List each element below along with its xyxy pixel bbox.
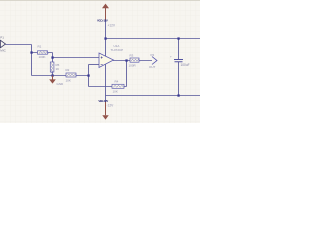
wire VEE stub (105, 96, 107, 103)
wire op-amp bottom input (89, 64, 100, 66)
wire bottom rail (106, 95, 201, 97)
wire R1 row (32, 52, 53, 54)
junction node cap bottom (177, 94, 179, 96)
wire top rail (106, 38, 201, 40)
svg-text:R4: R4 (115, 79, 119, 83)
wire R1 corner down (52, 53, 54, 58)
wire op-amp output row (113, 60, 152, 62)
wire to op-amp top input (53, 57, 100, 59)
svg-text:R1: R1 (38, 45, 42, 49)
svg-text:R2: R2 (66, 68, 70, 72)
wire left vertical (31, 45, 33, 76)
resistor R3 (output) (130, 58, 139, 62)
resistor R5 (vertical) (50, 62, 54, 72)
port P2 (output) (149, 53, 157, 69)
wire op-amp V- pin (105, 65, 107, 96)
junction node output (125, 59, 127, 61)
wire feedback vertical right (126, 61, 128, 87)
junction node +in branch (51, 56, 53, 58)
svg-text:GND: GND (57, 82, 65, 86)
svg-text:10K: 10K (113, 90, 118, 94)
power port GND (arrow down, mid-left) (49, 76, 64, 87)
svg-text:100uF: 100uF (181, 63, 190, 67)
wire feedback bottom row (89, 86, 127, 88)
svg-text:R3: R3 (130, 54, 134, 58)
junction node cap top (177, 37, 179, 39)
resistor hatch marks (39, 52, 140, 88)
svg-text:P1: P1 (0, 35, 4, 39)
svg-text:OUT: OUT (149, 65, 156, 69)
svg-text:+: + (170, 55, 172, 59)
junction node input/R1 (30, 51, 32, 53)
junction node vcc rail (104, 37, 106, 39)
resistor R4 (feedback) (112, 84, 124, 88)
junction node gnd rail left (51, 74, 53, 76)
resistor R1 (38, 51, 48, 54)
svg-text:+12V: +12V (108, 23, 116, 27)
svg-text:100K: 100K (39, 55, 46, 59)
wire cap C4 top lead (178, 39, 180, 60)
power port VCC (arrow up) (97, 4, 116, 28)
resistor R2 (66, 73, 76, 77)
svg-text:MIC: MIC (0, 49, 6, 53)
wire input row (6, 44, 32, 46)
wire bottom-left row (32, 75, 89, 77)
op-amp U1A (99, 53, 114, 68)
svg-text:P2: P2 (151, 53, 155, 57)
svg-text:10K: 10K (66, 79, 71, 83)
svg-text:VEE-12V: VEE-12V (98, 99, 108, 103)
top window edge (0, 0, 200, 2)
power port VEE (arrow down, bottom) (98, 99, 114, 120)
wire feedback vertical left (88, 65, 90, 87)
svg-text:TL072CP: TL072CP (111, 48, 124, 52)
port P1 (input) (0, 35, 7, 52)
wire vertical resistor branch (52, 58, 54, 76)
wire cap C4 bottom lead (178, 62, 180, 96)
capacitor C4 (174, 58, 183, 61)
junction node fb left (87, 74, 89, 76)
svg-text:-12V: -12V (107, 104, 115, 108)
svg-text:VCC+12V: VCC+12V (97, 19, 108, 23)
svg-text:1K: 1K (56, 67, 60, 71)
wire VCC vertical (105, 20, 107, 57)
svg-text:100R: 100R (129, 63, 137, 67)
